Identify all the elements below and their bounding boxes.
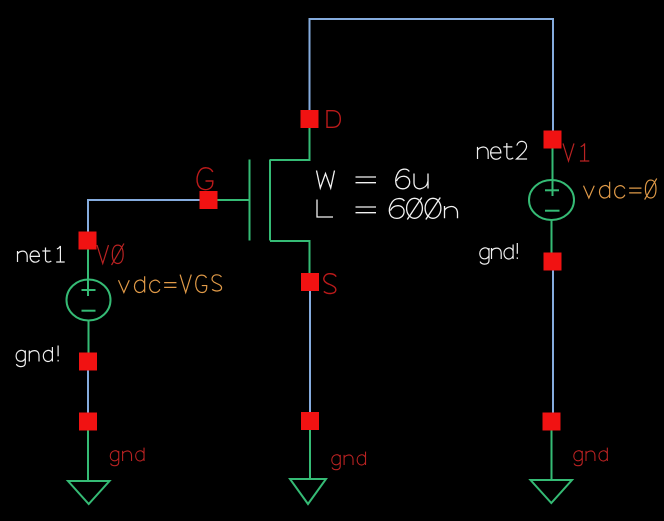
wire: gnd! left (V0 minus to gnd) — [87, 369, 89, 414]
pin square G — [200, 191, 218, 209]
pin square gnd middle — [301, 412, 319, 430]
pin square V1 plus (net2) — [544, 131, 562, 149]
ground symbol right — [531, 430, 573, 503]
value label vdc=VGS — [119, 275, 222, 293]
label G (gate pin) — [197, 168, 213, 190]
pin square gnd left — [79, 413, 97, 431]
wire: gnd! middle (M0 source to gnd) — [309, 290, 311, 414]
pin square V1 minus (gnd!) — [544, 253, 562, 271]
wire: top rail net (M0 drain to V1 plus) — [310, 19, 554, 132]
label S (source pin) — [324, 274, 336, 294]
vdc source V1 — [529, 147, 574, 254]
ground symbol middle — [290, 430, 326, 504]
net label gnd! right — [480, 243, 518, 264]
label D (drain pin) — [327, 111, 340, 128]
instance label V0 — [97, 243, 124, 265]
net label net2 — [478, 141, 528, 159]
value label vdc=0 — [584, 179, 657, 200]
pin square D — [301, 110, 319, 128]
net label gnd! left — [16, 346, 58, 367]
value label W = 6u — [317, 169, 429, 189]
ground symbol left — [68, 430, 110, 504]
pin square net1 (V0 plus) — [79, 232, 97, 250]
label gnd right — [574, 448, 608, 466]
instance label V1 — [563, 143, 589, 161]
net label net1 — [18, 246, 65, 262]
label gnd left — [110, 448, 144, 466]
vdc source V0 — [67, 248, 111, 354]
value label L = 600n — [317, 198, 458, 220]
label gnd middle — [332, 452, 366, 470]
wire: net1 (V0 plus to M0 gate) — [88, 200, 200, 233]
pin square S — [301, 273, 319, 291]
pin square gnd right — [543, 413, 561, 431]
wire: gnd! right (V1 minus to gnd) — [552, 268, 554, 414]
pin square V0 minus (gnd!) — [79, 353, 97, 371]
transistor M0 (nmos) — [218, 127, 310, 274]
